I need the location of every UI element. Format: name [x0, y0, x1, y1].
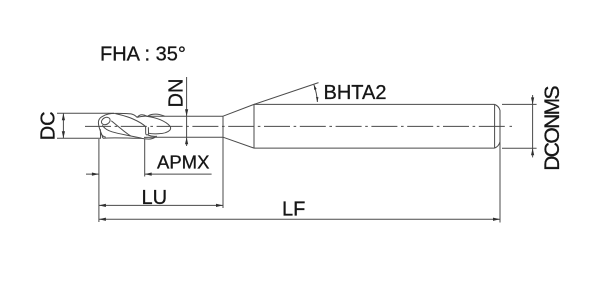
APMX extension line right: [144, 139, 146, 177]
DC extension line bottom: [57, 137, 101, 139]
gash edge line: [111, 121, 130, 136]
hook tail curve: [148, 135, 157, 136]
centerline: [85, 125, 506, 127]
svg-text:APMX: APMX: [157, 152, 209, 173]
BHTA2 arc arrow top: [314, 85, 317, 90]
DC extension line top: [57, 112, 114, 114]
flute end hook: [146, 127, 149, 135]
svg-text:FHA : 35°: FHA : 35°: [100, 44, 186, 66]
DCONMS arrow bottom (points up): [531, 148, 534, 155]
shank top line: [254, 103, 495, 105]
ball nose front profile: [98, 117, 103, 138]
DCONMS extension line bottom: [502, 147, 537, 149]
LU dimension line: [99, 204, 223, 206]
taper angle extension line: [254, 83, 319, 105]
svg-text:LF: LF: [282, 199, 305, 221]
shank bottom line: [254, 147, 495, 149]
BHTA2 angle arc: [314, 85, 318, 102]
flute 2 top bump: [148, 114, 165, 116]
neck-taper junction edge: [222, 116, 224, 137]
DN arrow top (points down): [185, 109, 188, 116]
neck top line: [147, 115, 223, 117]
BHTA2 arc arrow bottom: [316, 97, 319, 102]
shank end face with chamfer: [495, 104, 500, 148]
heel inner edge: [99, 129, 101, 138]
LF arrow right: [493, 218, 500, 221]
centerline end dot: [510, 125, 513, 127]
DCONMS extension line top: [502, 103, 537, 105]
taper top line: [223, 104, 254, 116]
LU extension line right: [222, 137, 224, 208]
flute 2 face outline: [146, 116, 170, 134]
flute bottom edge: [103, 137, 155, 139]
LF extension line right: [499, 142, 501, 223]
flute 1 helix edge (to bottom): [102, 125, 141, 138]
heel fan line: [101, 134, 106, 138]
taper bottom line: [223, 137, 254, 148]
flute land lens: [137, 115, 147, 118]
APMX dimension line: [86, 173, 212, 175]
APMX extension line left: [98, 139, 100, 222]
svg-text:BHTA2: BHTA2: [324, 82, 387, 104]
tip gash ellipse: [100, 116, 111, 126]
LF dimension line: [99, 218, 500, 220]
svg-text:LU: LU: [142, 187, 168, 209]
DC arrow down: [62, 131, 65, 138]
flute 2 helix edge (to hook): [116, 114, 146, 127]
LF arrow left: [99, 218, 106, 221]
shank chamfer tangent line: [494, 104, 496, 148]
DN arrow bottom (points up): [185, 137, 188, 144]
DC dimension line: [62, 113, 64, 138]
taper-shank junction edge: [253, 104, 255, 148]
APMX arrow left (points right): [92, 173, 99, 176]
DCONMS dimension line: [532, 95, 534, 157]
ball top edge: [102, 113, 137, 117]
svg-text:DN: DN: [166, 79, 188, 108]
LU arrow left: [99, 204, 106, 207]
svg-text:DCONMS: DCONMS: [541, 85, 564, 170]
DN dimension line: [186, 77, 188, 146]
APMX arrow right (points left): [145, 173, 152, 176]
svg-text:DC: DC: [38, 111, 60, 140]
neck bottom line: [144, 136, 223, 138]
LU arrow right: [216, 204, 223, 207]
DC arrow up: [62, 113, 65, 120]
DCONMS arrow top (points down): [531, 97, 534, 104]
